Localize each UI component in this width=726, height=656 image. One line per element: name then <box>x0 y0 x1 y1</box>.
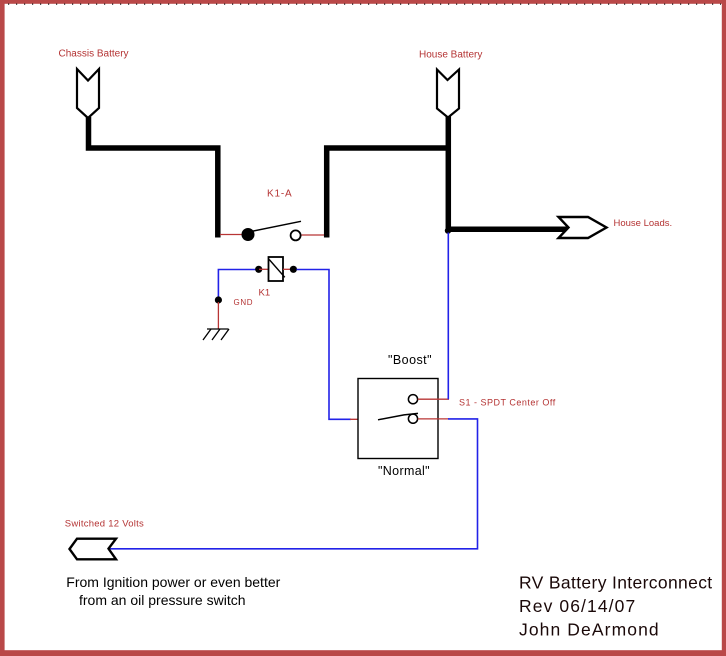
wire: junction to ground <box>217 302 219 329</box>
svg-text:Chassis Battery: Chassis Battery <box>59 49 129 60</box>
wire: left pin stub <box>259 268 269 270</box>
off-page connector: Chassis Battery <box>77 69 99 118</box>
svg-text:"Boost": "Boost" <box>388 353 432 367</box>
node: GND junction <box>215 296 222 303</box>
svg-text:From Ignition power or even be: From Ignition power or even better <box>66 574 280 590</box>
wire: chassis battery to relay contact (thick) <box>89 117 218 238</box>
ground symbol <box>203 329 229 340</box>
wire: normal contact right (red) <box>418 418 449 420</box>
wire: boost contact to blue drop (red) <box>418 398 449 400</box>
node: relay coil right pin <box>290 266 297 273</box>
off-page connector: House Battery <box>437 70 459 118</box>
wire: left stub to relay contact <box>220 234 243 236</box>
title block <box>519 573 713 640</box>
wire: relay contact to right thick wire <box>302 234 326 236</box>
switch S1 boost contact <box>408 395 417 404</box>
wire: right pin stub <box>283 268 293 270</box>
svg-text:Rev 06/14/07: Rev 06/14/07 <box>519 596 636 616</box>
wire: relay coil left lead (blue) <box>218 270 255 299</box>
relay contact K1-A pole (filled dot) <box>242 228 255 241</box>
off-page connector: House Loads <box>559 217 607 238</box>
switch S1 box <box>358 379 438 459</box>
off-page connector: Switched 12 Volts <box>70 539 117 560</box>
svg-text:RV Battery Interconnect: RV Battery Interconnect <box>519 573 713 593</box>
wire: normal contact to switched 12V (blue) <box>110 419 478 549</box>
wire: house loads junction down to boost contact (blue) <box>447 233 449 400</box>
wire: house battery down and to house loads (thick) <box>448 117 569 230</box>
svg-text:from an oil pressure switch: from an oil pressure switch <box>79 592 246 608</box>
relay coil K1 <box>269 257 284 281</box>
relay contact K1-A blade <box>251 221 301 231</box>
svg-text:House Battery: House Battery <box>419 50 482 61</box>
wire: relay contact to house battery (thick) <box>327 148 450 238</box>
svg-text:K1-A: K1-A <box>267 189 292 200</box>
node: house loads junction <box>445 227 451 233</box>
svg-text:House Loads.: House Loads. <box>614 218 673 229</box>
svg-text:Switched 12 Volts: Switched 12 Volts <box>65 518 144 529</box>
svg-text:John DeArmond: John DeArmond <box>519 620 660 640</box>
relay contact K1-A throw (open circle) <box>291 230 301 240</box>
svg-text:S1 - SPDT Center Off: S1 - SPDT Center Off <box>459 397 556 407</box>
wire: into switch lever (red) <box>350 418 380 420</box>
switch S1 lever <box>378 413 418 419</box>
svg-text:K1: K1 <box>259 288 271 299</box>
switch S1 normal contact <box>408 414 417 423</box>
svg-text:"Normal": "Normal" <box>378 464 430 478</box>
node: relay coil left pin <box>255 266 262 273</box>
wire: relay coil to switch common (blue) <box>297 270 352 420</box>
svg-text:GND: GND <box>234 298 254 307</box>
